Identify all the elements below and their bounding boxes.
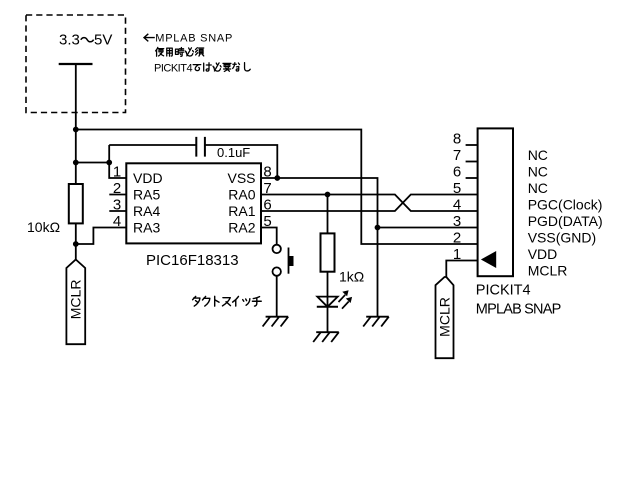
wire switch to ground bbox=[276, 276, 278, 317]
wire R2 to LED bbox=[327, 272, 329, 333]
svg-text:VSS(GND): VSS(GND) bbox=[528, 229, 596, 245]
wire RA1 to PGC with crossover bbox=[261, 195, 478, 212]
svg-text:NC: NC bbox=[528, 180, 548, 196]
node cap branch junction bbox=[73, 160, 79, 166]
annotation arrow left bbox=[144, 34, 155, 42]
svg-text:NC: NC bbox=[528, 163, 548, 179]
switch SW1 top contact bbox=[273, 245, 281, 253]
resistor R1 10k body bbox=[69, 184, 83, 223]
wire RA3 to MCLR node bbox=[76, 228, 127, 245]
svg-text:RA3: RA3 bbox=[133, 220, 160, 236]
svg-text:5: 5 bbox=[453, 180, 461, 197]
capacitor C1 plates bbox=[196, 137, 205, 157]
svg-text:MCLR: MCLR bbox=[437, 297, 453, 337]
svg-text:MPLAB SNAP: MPLAB SNAP bbox=[155, 32, 233, 44]
svg-text:4: 4 bbox=[453, 196, 461, 213]
svg-text:3: 3 bbox=[453, 213, 461, 230]
wire supply vertical bbox=[75, 64, 77, 260]
svg-text:PICKIT4: PICKIT4 bbox=[154, 62, 192, 74]
svg-text:10kΩ: 10kΩ bbox=[27, 219, 60, 235]
wire LED branch from RA0 bbox=[327, 195, 329, 234]
node RA0 LED junction bbox=[325, 192, 331, 198]
wire IC pin3 stub bbox=[109, 210, 126, 212]
terminal MCLR left bbox=[66, 260, 85, 345]
IC U1 PIC16F18313 body bbox=[126, 163, 261, 243]
wire VSS pin8 to ground and connector pin3 bbox=[261, 178, 478, 317]
svg-text:0.1uF: 0.1uF bbox=[217, 145, 250, 160]
LED D1 cathode bar bbox=[317, 306, 338, 308]
wire RA2 to switch bbox=[261, 228, 277, 245]
svg-text:VDD: VDD bbox=[133, 170, 163, 186]
node supply rail junction bbox=[73, 127, 79, 133]
switch SW1 bottom contact bbox=[273, 267, 281, 275]
svg-text:VSS: VSS bbox=[227, 170, 255, 186]
svg-text:7: 7 bbox=[453, 147, 461, 164]
node VSS GND junction bbox=[375, 225, 381, 231]
wire cap branch vertical to IC pin1 bbox=[109, 145, 126, 178]
svg-text:NC: NC bbox=[528, 147, 548, 163]
label tact switch (katakana) bbox=[193, 296, 262, 306]
wire capacitor right down to VSS node bbox=[205, 145, 277, 178]
svg-text:MCLR: MCLR bbox=[67, 280, 83, 320]
wire RA0 to PGD with crossover bbox=[261, 195, 478, 212]
connector J1 PICKIT4 body bbox=[478, 128, 513, 276]
resistor R2 1k body bbox=[321, 233, 335, 271]
connector pin8 stub bbox=[466, 144, 478, 146]
LED D1 emission arrows bbox=[339, 295, 346, 302]
svg-text:4: 4 bbox=[113, 213, 121, 230]
svg-text:PICKIT4: PICKIT4 bbox=[476, 283, 531, 299]
svg-text:PGD(DATA): PGD(DATA) bbox=[528, 213, 603, 229]
power rail bar symbol bbox=[59, 63, 93, 65]
annotation line 2 kanji 使用時必須 bbox=[156, 47, 204, 56]
annotation line 3 kana では必要なし bbox=[193, 63, 250, 72]
ground for VSS line bbox=[363, 317, 389, 327]
svg-text:RA0: RA0 bbox=[228, 187, 255, 203]
svg-text:RA4: RA4 bbox=[133, 203, 160, 219]
node cap to pin1 junction bbox=[106, 160, 112, 166]
svg-text:8: 8 bbox=[453, 130, 461, 147]
wire cap branch from supply bbox=[76, 162, 109, 164]
node VSS pin8 junction bbox=[274, 175, 280, 181]
svg-text:3.3: 3.3 bbox=[59, 32, 80, 49]
svg-text:1kΩ: 1kΩ bbox=[339, 269, 364, 285]
svg-text:RA5: RA5 bbox=[133, 187, 160, 203]
tilde glyph bbox=[81, 38, 94, 42]
svg-text:5V: 5V bbox=[94, 32, 112, 49]
svg-text:PIC16F18313: PIC16F18313 bbox=[146, 252, 239, 269]
connector pin7 stub bbox=[466, 161, 478, 163]
svg-text:2: 2 bbox=[113, 180, 121, 197]
wire connector pin1 to MCLR terminal bbox=[446, 261, 477, 278]
svg-text:1: 1 bbox=[113, 163, 121, 180]
ground for switch bbox=[263, 317, 289, 327]
LED D1 triangle bbox=[317, 297, 337, 307]
svg-text:6: 6 bbox=[453, 163, 461, 180]
connector pin6 stub bbox=[466, 177, 478, 179]
svg-text:VDD: VDD bbox=[528, 246, 558, 262]
wire VDD rail to connector pin2 bbox=[76, 130, 478, 245]
svg-text:RA1: RA1 bbox=[228, 203, 255, 219]
wire IC pin2 stub bbox=[109, 194, 126, 196]
MCLR arrow marker inside connector bbox=[481, 251, 496, 268]
node MCLR junction bbox=[73, 241, 79, 247]
svg-text:PGC(Clock): PGC(Clock) bbox=[528, 196, 603, 212]
terminal MCLR right bbox=[436, 277, 454, 358]
svg-text:MCLR: MCLR bbox=[528, 262, 568, 278]
svg-text:MPLAB SNAP: MPLAB SNAP bbox=[476, 302, 561, 318]
wire capacitor left bbox=[109, 144, 196, 146]
svg-text:2: 2 bbox=[453, 229, 461, 246]
power supply dashed box bbox=[26, 15, 126, 113]
svg-text:RA2: RA2 bbox=[228, 220, 255, 236]
ground for LED bbox=[313, 332, 339, 342]
switch SW1 actuator shaft bbox=[288, 248, 290, 274]
svg-text:3: 3 bbox=[113, 196, 121, 213]
switch SW1 actuator cap bbox=[289, 256, 294, 266]
